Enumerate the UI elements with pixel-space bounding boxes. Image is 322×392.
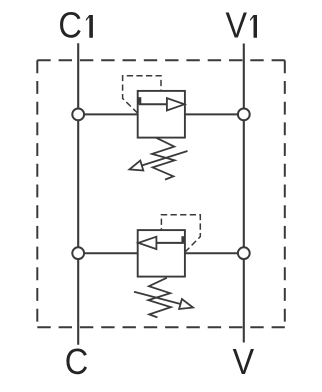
wire C1-C vertical line <box>77 43 79 345</box>
relief valve 2 body <box>138 230 185 277</box>
valve body boundary left edge (dashed) <box>36 60 38 327</box>
svg-text:V: V <box>226 5 248 46</box>
node C junction <box>72 247 84 259</box>
wire valve1 right port to node2 <box>185 113 244 115</box>
svg-text:C: C <box>58 5 82 46</box>
valve 2 flow arrow shaft <box>156 242 183 244</box>
valve 2 adjustment arrow shaft <box>134 292 181 304</box>
node V junction <box>238 247 250 259</box>
valve body boundary bottom edge (dashed) <box>37 326 284 328</box>
valve 2 adjustment arrow head <box>179 299 193 309</box>
wire node3 to valve2 left port <box>78 252 138 254</box>
valve 1 flow arrow shaft <box>139 103 167 105</box>
wire valve2 right port to node4 <box>185 252 244 254</box>
node V1 junction <box>238 109 250 121</box>
wire V1-V vertical line <box>243 44 245 343</box>
valve body boundary right edge (dashed) <box>284 60 286 327</box>
port label C1: digit 1 <box>86 15 93 38</box>
valve 1 adjustment arrow head <box>129 161 143 171</box>
node C1 junction <box>72 109 84 121</box>
valve body boundary top edge (dashed) <box>37 59 284 61</box>
svg-text:C: C <box>65 341 89 382</box>
valve 1 seat bar <box>138 97 141 104</box>
valve 2 spring <box>148 278 171 318</box>
valve 1 spring <box>152 138 175 180</box>
valve 2 seat bar <box>181 236 184 243</box>
svg-text:V: V <box>233 341 255 382</box>
valve 1 adjustment arrow shaft <box>142 151 188 166</box>
relief valve 1 body <box>138 91 185 138</box>
valve 2 flow arrow head <box>138 237 156 249</box>
valve 2 pilot line (dashed) <box>161 215 200 252</box>
port label V1: digit 1 <box>250 15 257 38</box>
wire node1 to valve1 left port <box>78 113 138 115</box>
valve 1 flow arrow head <box>167 98 185 110</box>
valve 1 pilot line (dashed) <box>123 76 161 114</box>
